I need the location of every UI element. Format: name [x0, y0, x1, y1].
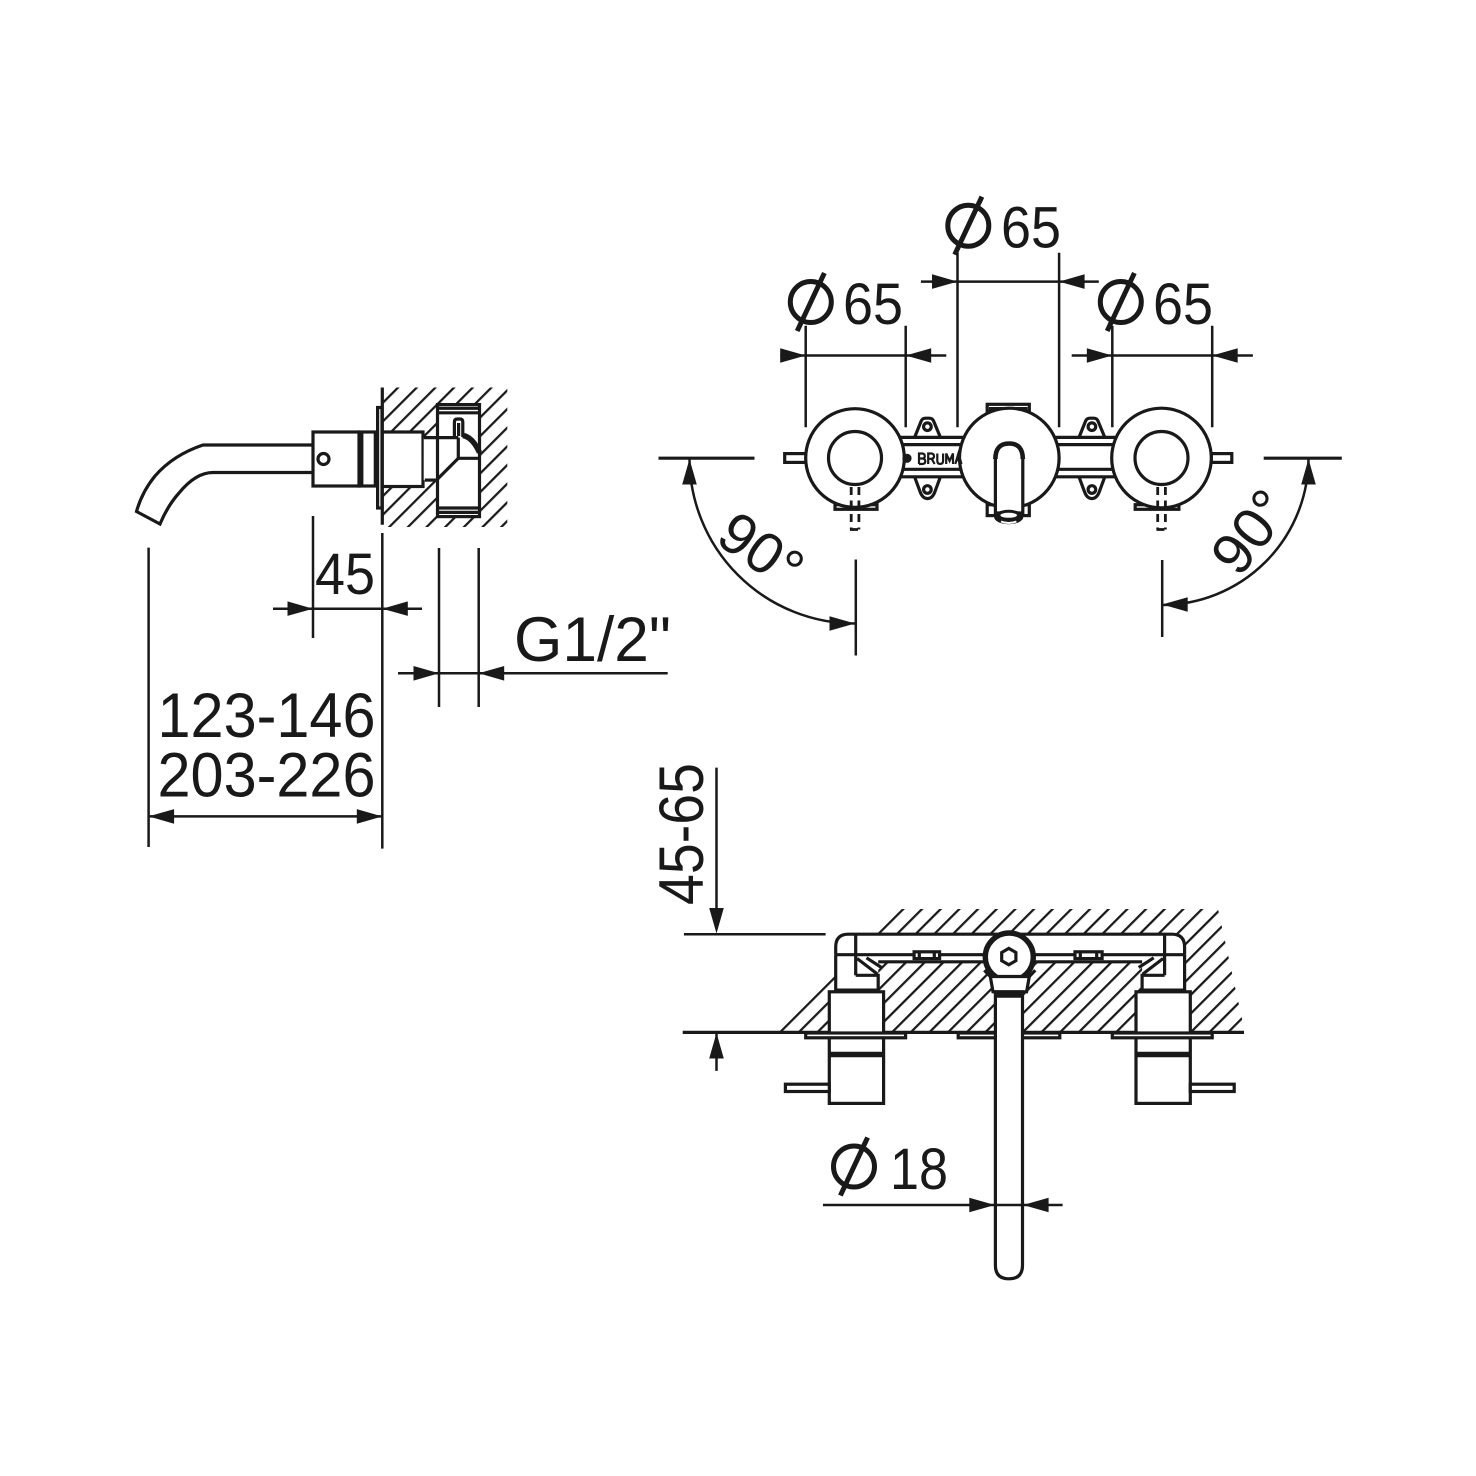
lever right (plan) — [1190, 1084, 1234, 1091]
passage lower line — [425, 479, 437, 482]
left leg outline — [836, 955, 879, 990]
hidden lever dashes left — [850, 487, 1167, 530]
mounting ear top-left — [915, 418, 941, 437]
spout outlet ellipses — [994, 510, 1023, 524]
escutcheon plate (side view) — [378, 408, 382, 509]
dimension Ø18 — [823, 1204, 1063, 1207]
diameter symbol left — [790, 282, 831, 323]
svg-text:65: 65 — [1001, 196, 1061, 261]
svg-text:65: 65 — [1153, 272, 1213, 337]
right leg + extension white — [1142, 955, 1185, 990]
bracket bar lines — [858, 436, 1160, 439]
set screw — [318, 454, 329, 465]
thick joint line — [358, 432, 363, 486]
centre rosette — [960, 408, 1060, 508]
hidden lever dashes right — [1156, 487, 1159, 530]
right handle hub — [1135, 432, 1188, 485]
left handle lever — [785, 454, 806, 463]
svg-text:G1/2": G1/2" — [514, 605, 671, 675]
tab below centre circle — [987, 505, 1029, 516]
wall hatch (side view) — [382, 388, 507, 528]
right handle lever — [1211, 454, 1232, 463]
flange right — [1112, 1033, 1212, 1038]
passage top line — [424, 436, 459, 439]
hex screw boss — [985, 933, 1033, 981]
passage diagonal — [437, 458, 459, 480]
wall face line (plan) — [683, 1031, 1244, 1034]
left handle hub — [829, 432, 882, 485]
bracket bar white — [836, 934, 1185, 955]
90-degree dimension left — [659, 457, 755, 460]
spout tube (curved) — [137, 445, 314, 524]
diameter symbol centre — [948, 205, 989, 246]
bracket bar outline — [836, 934, 1185, 955]
left rosette — [806, 409, 905, 508]
lever left (plan) — [785, 1084, 829, 1091]
mounting ear bottom-right — [1079, 477, 1105, 499]
pipe top cap line — [438, 411, 480, 414]
spout tube (plan, into room) — [995, 992, 1022, 1279]
dimension G1/2" — [438, 548, 441, 707]
dimension 123-146 / 203-226 — [147, 548, 150, 847]
bracket bar bottom line — [836, 953, 1185, 956]
clamp wedge left — [857, 959, 877, 975]
diameter symbol right — [1100, 282, 1141, 323]
valve thick band right — [1136, 1052, 1190, 1058]
mounting ear top-right — [1079, 418, 1105, 437]
clamp wedge right — [1143, 959, 1163, 975]
svg-text:45-65: 45-65 — [647, 763, 717, 905]
centre spout tube (front) — [995, 444, 1022, 514]
bar tab right — [1075, 952, 1102, 959]
centre block — [990, 977, 1029, 992]
BRUMA logo — [902, 454, 911, 463]
right rosette — [1112, 408, 1212, 508]
waterway curve (thick) — [463, 436, 480, 453]
right leg outline — [1142, 955, 1185, 990]
svg-text:65: 65 — [843, 272, 903, 337]
svg-text:45: 45 — [315, 542, 375, 607]
elbow pipe body — [438, 405, 480, 517]
dimension Ø65 right — [1111, 326, 1114, 428]
spout body — [313, 432, 359, 486]
tab below left rosette — [835, 505, 877, 510]
tab below right rosette — [1135, 505, 1179, 510]
valve thick band left — [829, 1052, 883, 1058]
passage step vertical — [457, 438, 460, 459]
tab above centre circle — [987, 404, 1029, 411]
wall hatch (plan view) — [775, 909, 1245, 1032]
valve body left (below wall) — [829, 992, 883, 1104]
in-wall valve body (side view) — [382, 432, 423, 487]
dimension 45-65 — [715, 768, 718, 909]
dimension Ø65 left — [804, 326, 807, 428]
wall face line (side view) — [381, 388, 384, 525]
left leg + extension white — [836, 955, 879, 990]
waterway passage (white) — [424, 438, 459, 481]
svg-text:18: 18 — [890, 1137, 948, 1202]
svg-text:203-226: 203-226 — [158, 741, 376, 811]
spout mounting ring — [359, 432, 375, 486]
bar tab left — [914, 952, 940, 959]
under-bar strip line — [878, 960, 1142, 963]
flange centre — [958, 1033, 1060, 1038]
under-bar strip white — [878, 955, 1142, 962]
dimension Ø65 centre — [956, 253, 959, 427]
dimension 45 — [312, 516, 315, 638]
passage step bottom — [458, 457, 479, 460]
flange left — [806, 1033, 906, 1038]
mounting ear bottom-left — [915, 477, 941, 499]
valve body right — [1136, 992, 1190, 1104]
pipe bottom cap line — [438, 506, 480, 509]
90-degree dimension right — [1264, 457, 1342, 460]
nipple — [454, 419, 462, 437]
